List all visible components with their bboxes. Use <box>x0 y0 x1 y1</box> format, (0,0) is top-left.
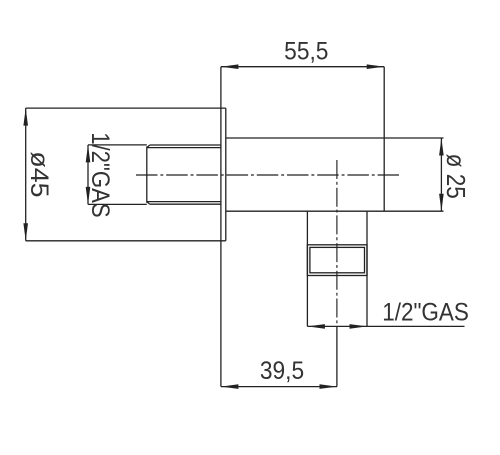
body bottom edge with dia25 extension <box>226 210 444 212</box>
outlet bottom / 1/2 GAS dimension leader <box>307 325 464 327</box>
arrow dia25 down <box>439 194 444 212</box>
arrow dia45 down <box>23 223 28 241</box>
thread chamfer bottom <box>147 202 150 205</box>
thread crest bottom <box>150 203 221 205</box>
arrow dia45 up <box>23 108 28 126</box>
thread chamfer top <box>147 145 150 148</box>
thread crest top <box>150 144 221 146</box>
flange top edge <box>26 107 226 109</box>
body right edge / 55,5 extension line <box>383 67 385 212</box>
arrow 55,5 left <box>221 64 239 69</box>
thread left edge <box>146 146 148 202</box>
flange right edge inner <box>225 108 227 241</box>
outlet collar outer rect <box>307 245 367 276</box>
svg-text:1/2"GAS: 1/2"GAS <box>382 298 469 326</box>
flange bottom edge <box>26 240 226 242</box>
thread root top <box>147 147 221 149</box>
thread dim extension bottom <box>88 203 147 205</box>
dimension line 55,5 <box>221 66 384 68</box>
svg-text:1/2"GAS: 1/2"GAS <box>86 132 114 217</box>
arrow outlet dim right <box>350 324 368 329</box>
svg-text:ø45: ø45 <box>25 151 52 197</box>
arrow 55,5 right <box>367 64 385 69</box>
arrow dia25 up <box>439 138 444 156</box>
svg-text:55,5: 55,5 <box>284 37 328 65</box>
svg-text:ø 25: ø 25 <box>441 154 470 199</box>
thread dim extension top <box>88 144 147 146</box>
thread root bottom <box>147 201 221 203</box>
arrow outlet dim left <box>307 324 325 329</box>
outlet right edge <box>366 211 368 326</box>
horizontal centerline <box>136 174 399 176</box>
svg-text:39,5: 39,5 <box>260 357 304 385</box>
flange right edge outer (extension line for 55,5 and 39,5) <box>220 67 222 387</box>
arrow thread dim up <box>86 145 91 163</box>
dia25 dimension line <box>440 138 442 211</box>
outlet left edge <box>306 211 308 326</box>
outlet collar inner rect <box>310 247 365 272</box>
dimension line 39,5 <box>221 386 337 388</box>
vertical centerline of outlet <box>336 160 338 326</box>
arrow thread dim down <box>86 187 91 205</box>
arrow 39,5 right <box>320 384 338 389</box>
arrow 39,5 left <box>221 384 239 389</box>
thread dimension line 1/2 GAS <box>87 145 89 205</box>
body top edge with dia25 extension <box>226 137 444 139</box>
extension below outlet <box>336 326 338 386</box>
flange left edge / dia45 dimension line <box>25 108 27 241</box>
